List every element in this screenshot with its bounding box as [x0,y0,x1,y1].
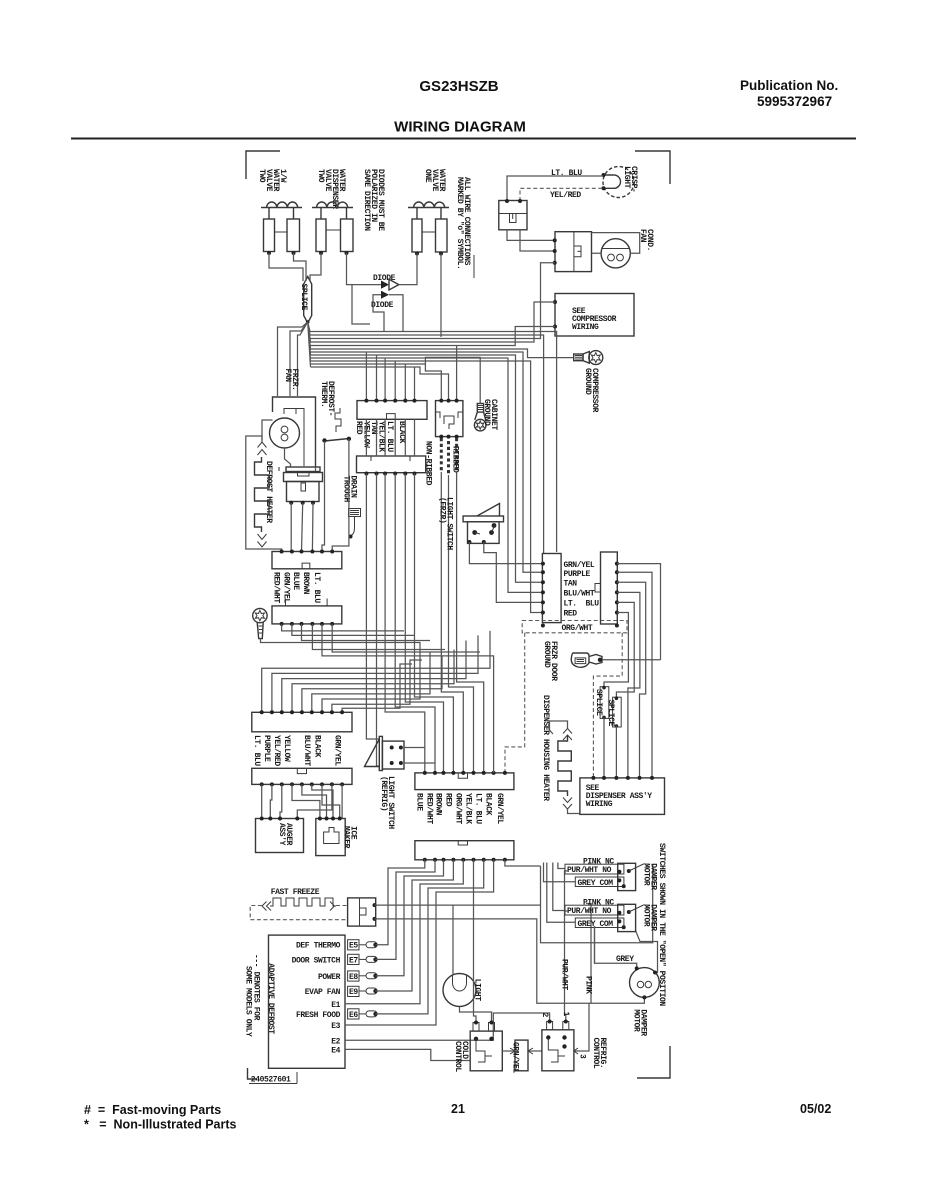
wire CB-R row6 to splice S2 [604,613,628,687]
wire LC2 to auger pin4 [297,784,332,818]
svg-text:FRESH FOOD: FRESH FOOD [296,1011,341,1020]
svg-text:(REFRIG): (REFRIG) [379,776,388,811]
connector CC2 [415,841,514,862]
svg-text:MAKER: MAKER [342,826,351,849]
see dispenser assy wiring box [580,776,665,815]
wire relay to cond fan loop [592,233,640,254]
svg-text:BLUE: BLUE [291,572,300,590]
condenser fan motor [601,239,630,268]
svg-text:5995372967: 5995372967 [757,94,832,109]
svg-text:YELLOW: YELLOW [282,735,291,762]
svg-text:PUR/WHT NO: PUR/WHT NO [567,866,612,875]
heater loop wire [246,436,282,552]
svg-text:PUR/WHT: PUR/WHT [560,959,569,990]
damper switch SW2 [565,899,646,932]
wire pur/wht riser [565,871,568,1022]
svg-text:BLU/WHT: BLU/WHT [564,590,595,599]
light switch frzr label [438,497,454,550]
wire frzr door ground to right riser [602,659,661,661]
wire E1 to CC2 [345,860,463,1004]
wire ground S-route to LC1 pin7 [322,643,420,713]
wire bus drop 6 [414,367,416,401]
wire harness B down [449,475,474,773]
svg-text:LT. BLU: LT. BLU [564,600,600,609]
wire LC2 to ice maker pin2 [302,784,327,818]
defrost thermostat [322,408,351,443]
wire fan top link [262,420,273,442]
wire fast freeze out2 to damper motor [375,919,645,1003]
wire V2 right lead to diode D1 [347,253,382,285]
top-left corner bracket [246,151,280,179]
wire CB-R row4 to dispenser pin4 [617,592,640,778]
svg-text:SOME MODELS ONLY: SOME MODELS ONLY [244,966,253,1037]
wire E8 to CC2 [376,860,444,976]
left: frzr fan, defrost [246,369,490,656]
grey wire from switch region [594,926,596,963]
wire LB2 out 2 [292,624,415,636]
svg-text:GRN/YEL: GRN/YEL [511,1042,520,1073]
top-right corner bracket [635,151,670,184]
svg-text:MOTOR: MOTOR [642,904,651,927]
wire LB2 out 3 [302,624,431,641]
wire E7 to CC2 [376,860,436,960]
title underline [71,138,856,140]
damper switch SW1 [565,858,646,891]
wire V1 right lead to splice [294,253,307,281]
frame corners [246,151,670,1079]
connector LC2 [252,768,352,786]
fast freeze dashed loop [250,906,347,920]
svg-text:* = Non-Illustrated Parts: * = Non-Illustrated Parts [84,1118,237,1132]
some models only note [244,954,261,1037]
splice S1 capsule [299,277,312,324]
cold control [470,1021,502,1071]
svg-text:CONTROL: CONTROL [453,1041,462,1072]
frzr fan label [283,369,299,391]
svg-text:E3: E3 [331,1022,340,1031]
wire feed grey com sw2 [547,863,576,923]
svg-text:RED/WHT: RED/WHT [425,793,434,824]
wire LC2 to auger pin1 [261,784,263,818]
svg-text:YEL/RED: YEL/RED [550,191,581,200]
svg-text:DIODE: DIODE [371,301,394,310]
LC1 wire labels [252,735,342,766]
svg-text:PINK: PINK [584,976,593,994]
frzr door ground label [542,641,558,681]
svg-text:MOTOR: MOTOR [632,1009,641,1032]
wire feed pur/wht sw1 [558,863,565,869]
compressor relay block [553,232,592,272]
part number [249,1072,297,1085]
wire valve return hook [352,285,370,324]
wire V3 right lead long drop [440,254,442,338]
svg-text:LT. BLU: LT. BLU [252,735,261,766]
svg-text:LT. BLU: LT. BLU [385,421,394,452]
wire bus drop 5 [404,364,406,401]
svg-text:SWITCHES SHOWN IN THE "OPEN" P: SWITCHES SHOWN IN THE "OPEN" POSITION [657,843,666,1006]
wire YEL/RED to lamp (dashed) [520,188,603,201]
wire CB-R row5 to splice S3 [616,602,634,698]
terminal block TB2 [357,456,426,476]
water valve V3 label "WATER VALVE ONE" [423,169,446,192]
svg-text:E9: E9 [349,988,358,997]
top section: valves, diodes, splice [257,169,474,337]
svg-text:GRN/YEL: GRN/YEL [564,561,595,570]
drain trough heater symbol [349,509,361,539]
svg-text:GRN/YEL: GRN/YEL [333,735,342,766]
svg-text:GROUND: GROUND [583,368,592,395]
svg-text:# = Fast-moving Parts: # = Fast-moving Parts [84,1103,221,1117]
wire LB2-6 S-route to LC1 pin6 [312,652,430,712]
water valve V1 coil [261,202,302,208]
wire bundle to harness conn B [311,367,449,401]
wire bus below TB2 5 [405,474,443,773]
wire E9 to CC2 [376,860,454,991]
svg-text:RED: RED [443,793,452,807]
wire bus below TB2 3 [385,474,425,773]
connector block LB2 [272,599,342,626]
wire CC2 to cold control pin1 [474,860,477,1022]
cond fan label [638,229,654,251]
drain trough label [342,476,358,503]
svg-text:ADAPTIVE DEFROST: ADAPTIVE DEFROST [266,963,275,1034]
svg-text:GREY COM: GREY COM [578,879,614,888]
harness connector CN2 (ribbed/non-ribbed) [436,399,463,439]
svg-text:DISPENSER HOUSING HEATER: DISPENSER HOUSING HEATER [541,695,550,801]
wire CN1 to relay pin2 [520,230,555,251]
refrig control [540,1003,589,1071]
ORG/WHT dashed row [522,621,627,633]
wire LC2 pin9 stub [341,784,343,818]
wire switch to bar row5 [469,542,543,564]
wire bundle to conn bar row1 [311,361,543,613]
wire fan to heater [279,467,316,471]
water valve V3 solenoid body [412,208,447,256]
def thermo row E5 [296,940,378,951]
wire splice S3 to dispenser pin3 [615,726,617,778]
wire LT.BLU to lamp [507,176,603,201]
LB1 wire labels [272,572,321,603]
svg-text:FAST FREEZE: FAST FREEZE [271,888,320,897]
wire E2 to refrig control pin2 [345,1013,550,1040]
svg-text:RED: RED [564,610,578,619]
svg-text:DEF THERMO: DEF THERMO [296,942,341,951]
svg-text:E7: E7 [349,956,358,965]
wire riser to LC1 pin8 [332,660,422,712]
refrig control label [591,1038,607,1069]
middle: bundles, terminal blocks [278,263,574,773]
damper motor label SW2 [642,904,658,931]
wire LB2-5 S-route to LC1 pin5 [302,656,442,712]
wire bus below TB2 1 [366,474,379,740]
wire bundle to conn bar row4 [311,358,543,592]
wire heater top lead [550,721,568,734]
svg-text:Publication No.: Publication No. [740,78,838,93]
terminal block TB1 [357,399,427,420]
wire ground to right [261,639,341,643]
svg-text:BLACK: BLACK [397,421,406,444]
wire splice fan-out [308,322,311,367]
wire heater bottom lead [568,809,580,814]
svg-text:SAME DIRECTION: SAME DIRECTION [362,169,371,231]
wire ORG/WHT dashed right branch [593,633,622,778]
grn/yel jumper box [502,1040,542,1073]
wire LB2 out 6 [332,624,480,652]
svg-text:WIRING: WIRING [572,323,599,332]
wire splice S2 to dispenser pin2 [603,717,605,778]
crisp light label [622,166,638,192]
see compressor wiring box [553,294,634,337]
svg-text:05/02: 05/02 [800,1102,831,1116]
svg-text:BROWN: BROWN [434,793,443,816]
wire E4 to cold control [345,1049,470,1060]
note "ALL WIRE CONNECTIONS MARKED BY o SYMBOL" [455,177,474,278]
wire LB2 out 4 [312,624,445,650]
wire bus drop 4 [394,361,396,401]
splice S2 [594,686,609,719]
wire bundle splice to left bar top [310,335,544,554]
wire bus drop 3 [384,358,386,401]
fast freeze switch box [348,898,377,926]
ice maker label [342,826,358,849]
wire to cabinet ground [425,357,480,403]
wire LC2 to ice maker pin3 [312,784,333,818]
diode D2 [381,291,389,299]
svg-text:E5: E5 [349,942,358,951]
svg-text:--- DENOTES FOR: --- DENOTES FOR [252,954,261,1021]
wire color labels between bars [564,561,600,619]
svg-text:21: 21 [451,1102,465,1116]
svg-text:YEL/BLK: YEL/BLK [377,421,386,452]
svg-text:BLU/WHT: BLU/WHT [302,735,311,766]
svg-text:LT. BLU: LT. BLU [312,572,321,603]
water valve V2 coil [312,202,353,208]
svg-text:RED/WHT: RED/WHT [272,572,281,603]
fresh food row E6 [296,1009,378,1020]
frzr fan enclosure [273,397,316,467]
water valve V3 coil [408,202,449,208]
wire switch refrig out1 [404,747,425,749]
wire harness conn pin3 up [456,346,458,401]
svg-text:GREY COM: GREY COM [578,920,614,929]
wire bus drop 2 [376,355,378,401]
svg-text:E6: E6 [349,1011,358,1020]
svg-text:LT. BLU: LT. BLU [474,793,483,824]
wire splice left leg 1 [278,322,308,396]
compressor ground lug [574,351,603,365]
svg-text:LT. BLU: LT. BLU [551,169,582,178]
wire bundle to conn bar row2 [311,352,543,572]
wire switch to bar row6 [484,542,543,602]
compressor ground label [583,368,599,413]
svg-text:PURPLE: PURPLE [262,735,271,762]
svg-text:POWER: POWER [318,973,341,982]
wire bundle to relay pin3 [311,263,555,339]
svg-text:ORG/WHT: ORG/WHT [562,624,593,633]
svg-text:PURPLE: PURPLE [564,570,591,579]
svg-text:(FRZR): (FRZR) [438,497,447,523]
adaptive defrost box [266,935,345,1068]
wire bus below TB2 2 [377,474,380,767]
light lamp [443,974,476,1007]
svg-text:WIRING: WIRING [586,800,613,809]
wire bundle to harness conn A [311,364,442,401]
fast freeze wave element [262,898,336,911]
wire LC2 to ice maker pin4 [322,784,340,818]
svg-text:YEL/BLK: YEL/BLK [464,793,473,824]
wire diode D2 output [389,295,403,331]
wire feed pur/wht sw2 [553,863,565,911]
bottom-left corner bracket [248,1068,258,1079]
wire bundle to compressor box pin1 [311,302,556,342]
wire switch refrig out2 [404,762,435,764]
wire LB2 out 5 [322,624,490,656]
connector bar CB-R [595,552,619,628]
connector plug CN1 [499,199,527,230]
evap fan row E9 [305,986,378,997]
svg-text:GS23HSZB: GS23HSZB [419,78,498,95]
wire harness C down [457,472,484,773]
damper motor label [632,1009,648,1036]
wire CB-R row1 right riser [617,564,661,660]
svg-text:LIGHT: LIGHT [622,166,631,189]
svg-text:MARKED BY "o" SYMBOL.: MARKED BY "o" SYMBOL. [455,177,464,269]
svg-text:THERM.: THERM. [319,381,328,407]
svg-text:SPLICE: SPLICE [594,689,603,716]
defrost heater assembly [284,467,323,505]
crisp light lamp [602,167,635,198]
svg-text:E2: E2 [331,1038,340,1047]
wire ORG/WHT dashed left branch [505,633,525,773]
wire splice left leg 2 [290,322,308,396]
svg-text:TWO: TWO [257,169,266,183]
cabinet ground lug [474,404,486,431]
svg-text:ASS'Y: ASS'Y [277,823,286,846]
wire E3 to CC2 [345,860,494,1025]
water valve V1 solenoid body [264,208,300,255]
svg-text:ORG/WHT: ORG/WHT [453,793,462,824]
svg-text:MOTOR: MOTOR [642,863,651,886]
top right: crisp light, relay, cond fan, compressor [499,166,654,413]
damper motor DM [630,966,660,999]
right: connectors, dispenser [438,497,665,814]
wire bundle splice to right bar [310,332,557,553]
svg-text:TWO: TWO [316,169,325,183]
wire LC2 to auger pin2 [270,784,272,818]
svg-text:SPLICE: SPLICE [606,700,615,727]
svg-text:DOOR SWITCH: DOOR SWITCH [292,956,341,965]
svg-text:E1: E1 [331,1001,340,1010]
wire CB-R row2 to dispenser pin6 [617,572,652,778]
dispenser housing heater element [558,729,572,810]
wire LC2 to ice maker pin1 [292,784,320,818]
lower left: auger, ice maker [252,631,514,862]
connector LC1 [252,710,352,732]
wire CB-R row3 to dispenser pin5 [617,582,646,778]
wire bundle to conn bar row3 [311,355,543,582]
svg-text:RIBBED: RIBBED [451,446,460,473]
svg-text:YEL/RED: YEL/RED [272,735,281,766]
svg-text:FAN: FAN [283,369,292,383]
defrost thermostat label [319,381,335,416]
wire LB2-4 S-route to LC1 pin4 [292,650,454,713]
svg-text:2: 2 [540,1013,549,1018]
wire LB2-2 S-route to LC1 pin2 [272,635,478,712]
cabinet ground label [482,399,498,430]
diode D1 [381,281,389,289]
footer [84,1102,831,1132]
wire harness A down [441,472,463,773]
svg-text:WIRING DIAGRAM: WIRING DIAGRAM [394,119,526,136]
svg-text:BLUE: BLUE [415,793,424,811]
TB1 wire labels [354,421,406,452]
wire riser to LC1 pin9 [342,664,412,712]
svg-text:1: 1 [561,1012,570,1017]
wire CN1 to relay pin1 [507,230,555,241]
svg-text:ONE: ONE [423,169,432,183]
svg-text:TAN: TAN [564,580,578,589]
light switch frzr [463,504,503,545]
svg-text:BROWN: BROWN [301,572,310,595]
wire bundle to compressor ground [311,349,574,358]
svg-text:3: 3 [578,1054,587,1059]
water valve V2 label "WATER DISPENSER VALVE TWO" [316,169,346,209]
frzr door ground lug [571,653,602,667]
connector bar CB-L [541,554,561,628]
svg-text:EVAP FAN: EVAP FAN [305,988,341,997]
wire splice left leg 3 [298,322,308,396]
wire right riser to CC1 pin8 [490,656,494,773]
water valve V2 solenoid body [316,208,353,255]
wire pink riser [586,904,591,1004]
wire damper motor right [636,931,658,973]
evap ground lug [253,608,267,638]
cold control label [453,1041,469,1072]
wire diode D2 input drop [373,295,384,332]
svg-text:SPLICE: SPLICE [299,284,308,311]
ribbed wire hatches [441,438,456,475]
svg-text:E8: E8 [349,973,358,982]
door switch row E7 [292,954,378,965]
svg-text:GRN/YEL: GRN/YEL [495,793,504,824]
wire fast freeze out1 [375,860,653,943]
ice maker box [316,817,345,856]
auger assy box [256,817,304,853]
svg-text:PUR/WHT NO: PUR/WHT NO [567,907,612,916]
power row E8 [318,971,378,982]
svg-text:E4: E4 [331,1047,340,1056]
wire LC2 to auger pin3 [280,784,282,818]
svg-text:GROUND: GROUND [482,399,491,426]
wire thermostat to LB1 [322,439,349,552]
svg-text:CONTROL: CONTROL [591,1038,600,1069]
svg-text:BLACK: BLACK [484,793,493,816]
wire bus below TB2 6 [415,474,454,773]
note "DIODES MUST BE POLARIZED IN SAME DIRECTION" [362,169,385,231]
wire LB2-3 S-route to LC1 pin3 [282,641,466,713]
wire bus drop 1 [365,352,367,401]
light switch refrig [365,736,405,770]
bottom-right corner bracket [637,1046,670,1078]
connector block LB1 [272,550,342,569]
svg-text:GREY: GREY [616,955,634,964]
wire heater to LB1 [291,503,313,552]
defrost heater element zigzag [255,442,270,547]
wire light top [452,905,454,975]
TB1-TB2 connect stubs [366,419,414,456]
wire E6 to CC2 [376,860,484,1014]
header [71,78,856,139]
